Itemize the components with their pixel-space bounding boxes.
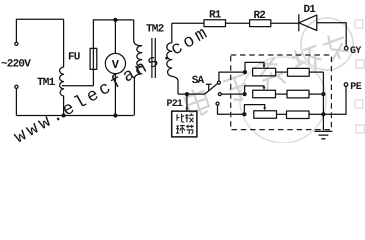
resistor row2 b	[287, 90, 309, 98]
wire R2 to D1	[271, 22, 299, 24]
wire row3 mid	[277, 113, 287, 115]
label comparison block chinese glyphs	[176, 114, 194, 134]
svg-text:D1: D1	[304, 4, 317, 16]
wire rheostat loop row3	[244, 105, 264, 115]
resistor row1 a	[253, 68, 276, 76]
node junction V-line top	[114, 18, 117, 21]
wire row1 from contact	[219, 72, 245, 81]
switch SA contact top	[217, 81, 220, 84]
svg-text:FU: FU	[68, 51, 80, 63]
wire secondary bottom to switch	[178, 93, 204, 95]
node junction row1	[244, 71, 247, 74]
svg-text:~220V: ~220V	[1, 59, 31, 71]
node junction TM1 bottom	[62, 114, 65, 117]
resistor row2 a	[253, 90, 276, 98]
resistor R2	[250, 20, 271, 27]
arrow row3	[263, 107, 266, 110]
wire source bottom to bottom rail	[15, 89, 17, 116]
resistor row1 b	[288, 68, 310, 76]
wire secondary top to R1	[172, 22, 204, 24]
resistor row3 b	[287, 111, 310, 119]
glyph jie	[186, 125, 194, 134]
svg-text:SA: SA	[192, 75, 205, 87]
diode D1	[299, 14, 317, 31]
arrow row1	[263, 65, 266, 68]
wire voltmeter line	[114, 20, 116, 116]
switch SA contact middle	[218, 93, 221, 96]
node junction V-line bottom	[114, 114, 117, 117]
glyph huan	[176, 126, 185, 134]
wire bottom rail	[16, 115, 133, 117]
ground	[314, 131, 332, 138]
resistor R1	[204, 20, 226, 27]
terminal ~220V bottom	[15, 85, 18, 88]
wire row3 from contact	[218, 105, 245, 114]
wire PE to bus	[323, 86, 346, 114]
transformer TM2 core	[152, 38, 155, 78]
svg-text:TM1: TM1	[37, 77, 56, 89]
wire top-left rail from source to TM1	[16, 19, 63, 42]
terminal GY	[344, 46, 348, 50]
wire row1 mid	[276, 71, 288, 73]
dashed selection box	[231, 55, 332, 130]
wire rheostat loop row1	[245, 62, 264, 72]
node junction row3	[243, 113, 246, 116]
node TM1 tap wire to fuse	[62, 85, 93, 87]
terminal ~220V top	[15, 42, 18, 45]
svg-text:GY: GY	[350, 46, 361, 57]
watermark right-edge faint glyphs	[355, 20, 364, 133]
svg-text:R1: R1	[209, 10, 222, 22]
watermark logo ring right	[240, 18, 353, 143]
node junction row2	[243, 93, 246, 96]
glyph bi	[177, 114, 184, 122]
comparison block box	[172, 111, 197, 137]
arrow into comparison box	[185, 108, 188, 111]
wire rheostat loop row2	[245, 86, 264, 94]
svg-text:V: V	[112, 58, 120, 72]
wire P21 drop	[186, 94, 188, 111]
switch SA handle T	[206, 84, 212, 91]
wire row3 to bus	[309, 113, 323, 115]
wire fuse line	[93, 20, 133, 86]
glyph jiao	[185, 114, 193, 123]
node junction bus row2	[322, 93, 325, 96]
wire row2 mid	[276, 93, 288, 95]
watermark CJK glyph blobs	[183, 31, 350, 119]
wire R1 to R2	[226, 22, 250, 24]
svg-text:PE: PE	[350, 82, 361, 93]
wire row2 from contact	[221, 93, 244, 95]
resistor row3 a	[254, 111, 277, 119]
arrow row2	[263, 87, 266, 90]
voltmeter V	[105, 53, 125, 73]
wire D1 to GY	[317, 23, 346, 47]
wire row1 to bus	[309, 71, 323, 73]
terminal PE	[344, 83, 348, 87]
wire row2 to bus	[309, 93, 323, 95]
svg-text:TM2: TM2	[146, 24, 164, 36]
watermark www.elecfans.com	[11, 23, 213, 149]
switch SA contact bottom	[216, 102, 219, 105]
svg-text:R2: R2	[254, 10, 266, 22]
node junction bus row3	[322, 113, 325, 116]
wire ground bus	[322, 72, 324, 130]
node junction P21	[185, 93, 188, 96]
svg-text:P21: P21	[167, 99, 183, 110]
fuse FU	[90, 48, 97, 69]
switch SA blade	[204, 84, 217, 95]
transformer TM2 secondary	[167, 23, 178, 94]
transformer TM2 primary	[134, 20, 142, 116]
transformer TM1 winding	[60, 19, 64, 115]
